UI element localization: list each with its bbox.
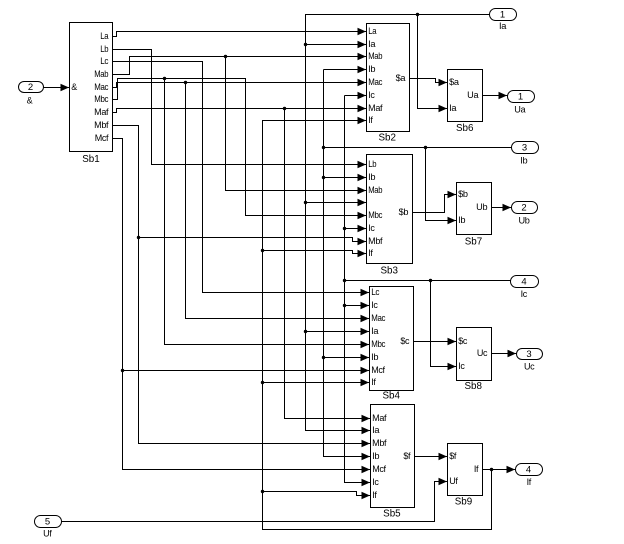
junction dot Ib Sb4 [322, 356, 325, 359]
outport 3 (Uc) [517, 349, 543, 372]
wire Ic to Sb4 [345, 305, 370, 307]
svg-text:Sb5: Sb5 [383, 508, 401, 519]
subsystem block Sb3 [367, 155, 413, 277]
arrowhead into Sb4.If [361, 379, 370, 387]
svg-text:Lc: Lc [371, 287, 380, 297]
arrowhead into Sb6.$a [439, 79, 448, 87]
svg-text:Uf: Uf [43, 529, 52, 539]
wire net Mcf : Sb1.Mcf to Sb4.Mcf and Sb5.Mcf [113, 139, 371, 474]
svg-text:Ua: Ua [467, 90, 478, 100]
svg-text:Sb2: Sb2 [378, 133, 396, 144]
wire net & : inport 2 to Sb1 [44, 84, 70, 92]
wire net $a : Sb2 output to Sb6 [410, 79, 448, 87]
arrowhead into outport 4 [507, 466, 516, 474]
svg-text:Ua: Ua [514, 104, 525, 114]
junction dot Mbc [163, 77, 166, 80]
wire Ia to Sb2 [306, 44, 367, 46]
wire Lb [113, 50, 367, 165]
inport 2 (&) [19, 82, 44, 106]
wire Uf run [62, 482, 448, 522]
svg-text:$f: $f [403, 451, 411, 461]
wire Mbc main [113, 79, 367, 216]
arrowhead into Sb9.Uf [439, 478, 448, 486]
wire Ia to Sb3 [306, 202, 367, 204]
wire net Mbc : Sb1.Mbc to Sb3.Mbc and Sb4.Mbc [113, 77, 370, 349]
arrowhead into Sb8.Ic [448, 363, 457, 371]
subsystem block Sb4 [370, 287, 414, 402]
junction dot Mbf [137, 236, 140, 239]
svg-text:Sb7: Sb7 [465, 237, 483, 248]
wire Mcf branch [123, 370, 370, 372]
svg-text:&: & [71, 82, 77, 92]
arrowhead into Sb2.Ic [358, 92, 367, 100]
wire Ia to Sb6 [418, 15, 448, 109]
junction dot If Sb4 [261, 381, 264, 384]
wire Mac branch [186, 83, 370, 319]
junction dot Ia Sb4 [304, 330, 307, 333]
svg-text:Maf: Maf [94, 107, 109, 117]
svg-text:Ub: Ub [519, 215, 530, 225]
svg-text:3: 3 [526, 349, 531, 360]
junction dot Ic Sb4 [343, 304, 346, 307]
wire net Ia : inport 1 to Sb2.Ia, Sb3, Sb4.Ia, Sb5.Ia, Sb6.Ia [304, 13, 490, 435]
svg-text:3: 3 [522, 142, 527, 153]
outport 4 (If) [516, 464, 543, 488]
arrowhead into outport 3 [508, 350, 517, 358]
wire Ia trunk [306, 15, 490, 431]
svg-text:4: 4 [521, 276, 526, 287]
svg-text:Mac: Mac [94, 82, 109, 92]
svg-text:Ic: Ic [458, 361, 465, 371]
arrowhead into Sb7.$b [448, 191, 457, 199]
svg-text:Sb9: Sb9 [455, 496, 473, 507]
arrowhead into Sb4.Ib [361, 354, 370, 362]
svg-text:Ia: Ia [368, 39, 375, 49]
junction dot Ic Sb3 [343, 227, 346, 230]
arrowhead into outport 1 [499, 92, 508, 100]
svg-text:5: 5 [45, 516, 50, 527]
svg-text:Mbf: Mbf [94, 120, 109, 130]
arrowhead into Sb5.Ib [362, 453, 371, 461]
wire net $c : Sb4 output to Sb8 [414, 338, 457, 346]
wire $c run [414, 341, 457, 343]
wire If to Sb5 [263, 492, 371, 496]
svg-text:Mac: Mac [368, 77, 383, 87]
junction dot Maf [283, 107, 286, 110]
junction dot Ib inport [322, 146, 325, 149]
arrowhead into Sb3.Ib [358, 174, 367, 182]
wire Ib to Sb3 [324, 177, 367, 179]
wire Ua run [483, 95, 508, 97]
arrowhead into Sb4.Mcf [361, 367, 370, 375]
svg-text:Mcf: Mcf [95, 133, 109, 143]
arrowhead into Sb2.Mac [358, 79, 367, 87]
arrowhead into Sb5.Ic [362, 479, 371, 487]
arrowhead into Sb8.$c [448, 338, 457, 346]
svg-text:$c: $c [400, 336, 410, 346]
svg-text:Uc: Uc [477, 348, 488, 358]
wire net Mbf : Sb1.Mbf to Sb3.Mbf and Sb5.Mbf [113, 126, 371, 448]
svg-text:Ia: Ia [449, 103, 456, 113]
wire Mbf branch [139, 238, 367, 242]
wire Ic inport run [345, 280, 511, 282]
wire Mcf main [113, 139, 371, 470]
svg-text:Ic: Ic [371, 300, 378, 310]
arrowhead into Sb5.If [362, 492, 371, 500]
arrowhead into Sb4.Mbc [361, 341, 370, 349]
svg-text:Sb8: Sb8 [464, 381, 482, 392]
arrowhead into Sb3.Mab [358, 187, 367, 195]
svg-text:Lb: Lb [368, 159, 376, 169]
svg-text:Mac: Mac [371, 313, 386, 323]
svg-text:Ic: Ic [521, 289, 528, 299]
svg-text:Ia: Ia [499, 21, 506, 31]
arrowhead into outport 2 [503, 204, 512, 212]
svg-text:Ia: Ia [372, 425, 379, 435]
svg-text:Mcf: Mcf [372, 464, 386, 474]
arrowhead into Sb3.Lb [358, 161, 367, 169]
svg-text:Ic: Ic [368, 90, 375, 100]
svg-text:4: 4 [526, 464, 531, 475]
wire If to Sb4 [263, 382, 370, 384]
wire net Mac : Sb1.Mac to Sb2.Mac and Sb4.Mac [113, 79, 370, 323]
svg-text:Mab: Mab [94, 69, 108, 79]
wire net Mab : Sb1.Mab to Sb2.Mab and Sb3.Mab [113, 53, 367, 195]
junction dot Mcf [121, 369, 124, 372]
svg-text:&: & [27, 95, 33, 105]
svg-text:$b: $b [399, 207, 409, 217]
wire net $b : Sb3 output to Sb7 [413, 191, 457, 213]
wire Ic to Sb3 [345, 228, 367, 230]
arrowhead into Sb1 [61, 84, 70, 92]
svg-text:$a: $a [449, 77, 459, 87]
svg-text:Ub: Ub [476, 202, 487, 212]
arrowhead into Sb2.Maf [358, 105, 367, 113]
wire Maf branch [285, 109, 371, 419]
wire $f run [415, 456, 448, 458]
svg-text:$c: $c [458, 336, 468, 346]
wire net Lc : Sb1.Lc to Sb4.Lc [113, 62, 370, 297]
wire Ib inport run [324, 147, 512, 149]
wire net Ub : Sb7 output to outport 2 [492, 204, 512, 212]
svg-text:Sb3: Sb3 [380, 266, 398, 277]
arrowhead into Sb3.If [358, 250, 367, 258]
wire If to Sb3 [263, 251, 367, 254]
wire If out run [483, 469, 516, 471]
wire Mbf main [113, 126, 371, 444]
svg-text:Ib: Ib [371, 352, 378, 362]
outport 1 (Ua) [508, 91, 535, 115]
svg-text:Maf: Maf [368, 103, 383, 113]
wire Ic trunk [345, 96, 371, 483]
junction dot If Sb5 [261, 490, 264, 493]
wire Lc [113, 62, 370, 293]
junction dot Mab [224, 55, 227, 58]
wire Ic to Sb8 [431, 281, 457, 367]
subsystem block Sb7 [457, 183, 492, 248]
wire net Lb : Sb1.Lb to Sb3.Lb [113, 50, 367, 169]
svg-text:Uc: Uc [524, 362, 535, 372]
junction dot Ic Sb8 [429, 279, 432, 282]
arrowhead into Sb3.Mbc [358, 212, 367, 220]
wire Maf main [113, 109, 367, 113]
svg-text:Ib: Ib [372, 451, 379, 461]
wire Ic to Sb2 [345, 95, 367, 97]
svg-text:Ic: Ic [368, 223, 375, 233]
svg-text:La: La [100, 31, 108, 41]
arrowhead into Sb5.Ia [362, 427, 371, 435]
wire Ia to Sb4 [306, 331, 370, 333]
svg-text:Mbc: Mbc [371, 339, 386, 349]
inport 1 (Ia) top right [490, 9, 517, 32]
svg-text:Mab: Mab [368, 185, 382, 195]
svg-text:Ib: Ib [520, 155, 527, 165]
svg-text:La: La [368, 26, 376, 36]
subsystem block Sb6 [448, 70, 483, 135]
wire Mab main [113, 57, 367, 75]
svg-text:Lc: Lc [100, 56, 109, 66]
wire &amp; run [44, 87, 70, 89]
wire Mbc branch [165, 79, 370, 345]
subsystem block Sb1 [70, 23, 113, 166]
svg-text:Lb: Lb [100, 44, 108, 54]
wire La [113, 32, 367, 37]
svg-text:Sb6: Sb6 [456, 123, 474, 134]
wire If feedback [263, 121, 492, 530]
arrowhead into Sb2.La [358, 28, 367, 36]
svg-text:If: If [527, 477, 532, 487]
arrowhead into Sb7.Ib [448, 217, 457, 225]
arrowhead into Sb3.Mbf [358, 238, 367, 246]
wire $a run [410, 79, 448, 83]
svg-text:2: 2 [521, 202, 526, 213]
arrowhead into Sb5.Mcf [362, 466, 371, 474]
wire Mac main [113, 83, 367, 88]
svg-text:Sb4: Sb4 [382, 390, 400, 401]
arrowhead into Sb2.Ib [358, 66, 367, 74]
svg-text:Ic: Ic [372, 477, 379, 487]
svg-text:Mbc: Mbc [94, 94, 109, 104]
wire net Ib : inport 3 to Sb2.Ib, Sb3.Ib, Sb4.Ib, Sb5.Ib, Sb7.Ib [322, 66, 512, 461]
svg-text:Ib: Ib [458, 215, 465, 225]
junction dot Ib Sb3 [322, 176, 325, 179]
svg-text:Mbf: Mbf [372, 438, 387, 448]
arrowhead into Sb5.Maf [362, 415, 371, 423]
arrowhead into Sb9.$f [439, 453, 448, 461]
wire net Ua : Sb6 output to outport 1 [483, 92, 508, 100]
wire Ub run [492, 207, 512, 209]
junction dot Ia Sb2 [304, 43, 307, 46]
wire Uc run [492, 353, 517, 355]
junction dot If feedback [490, 468, 493, 471]
wire net Maf : Sb1.Maf to Sb2.Maf and Sb5.Maf [113, 105, 371, 423]
svg-text:Maf: Maf [372, 413, 387, 423]
inport 4 (Ic) [511, 276, 539, 300]
svg-text:2: 2 [28, 82, 33, 93]
subsystem block Sb2 [367, 24, 410, 144]
wire Ib to Sb2 [324, 69, 367, 71]
arrowhead into Sb2.If [358, 117, 367, 125]
svg-text:Mbc: Mbc [368, 210, 383, 220]
svg-text:Sb1: Sb1 [82, 154, 100, 165]
arrowhead into Sb4.Ic [361, 302, 370, 310]
wire net If : Sb9 output to outport 4 and feedback to Sb2..Sb5 [261, 117, 516, 530]
outport 2 (Ub) [512, 202, 538, 226]
subsystem block Sb5 [371, 405, 415, 520]
inport 3 (Ib) [512, 142, 539, 166]
wire Ib to Sb4 [324, 357, 370, 359]
junction dot Ic inport [343, 279, 346, 282]
junction dot Ia Sb3 [304, 201, 307, 204]
subsystem block Sb8 [457, 328, 492, 392]
junction dot If Sb3 [261, 249, 264, 252]
arrowhead into Sb6.Ia [439, 105, 448, 113]
svg-text:1: 1 [500, 9, 505, 20]
svg-text:Ib: Ib [368, 64, 375, 74]
svg-text:Ib: Ib [368, 172, 375, 182]
arrowhead into Sb3.Ic [358, 225, 367, 233]
arrowhead into Sb5.Mbf [362, 440, 371, 448]
svg-text:Mcf: Mcf [371, 365, 385, 375]
wire net Uc : Sb8 output to outport 3 [492, 350, 517, 358]
svg-text:Ia: Ia [371, 326, 378, 336]
svg-text:1: 1 [518, 91, 523, 102]
svg-text:Mab: Mab [368, 51, 382, 61]
arrowhead into Sb2.Ia [358, 41, 367, 49]
wire net Ic : inport 4 to Sb2.Ic, Sb3.Ic, Sb4.Ic, Sb5.Ic, Sb8.Ic [343, 92, 511, 487]
arrowhead into Sb3 input 4 [358, 199, 367, 207]
junction dot Mac [184, 81, 187, 84]
wire Ib to Sb7 [426, 148, 457, 221]
arrowhead into Sb2.Mab [358, 53, 367, 61]
svg-text:Uf: Uf [449, 476, 458, 486]
arrowhead into Sb4.Lc [361, 289, 370, 297]
wire $b run [413, 195, 457, 213]
junction dot Ib Sb7 [424, 146, 427, 149]
junction dot Ia top [416, 13, 419, 16]
wire Ib trunk [324, 70, 371, 457]
wire net Uf : inport 5 to Sb9.Uf [62, 478, 448, 522]
svg-text:$a: $a [396, 73, 406, 83]
svg-text:$f: $f [449, 451, 457, 461]
inport 5 (Uf) bottom left [35, 516, 62, 539]
arrowhead into Sb4.Mac [361, 315, 370, 323]
wire net $f : Sb5 output to Sb9 [415, 453, 448, 461]
arrowhead into Sb4.Ia [361, 328, 370, 336]
svg-text:$b: $b [458, 189, 468, 199]
wire Mab branch [226, 57, 367, 191]
svg-text:Mbf: Mbf [368, 236, 383, 246]
wire net La : Sb1.La to Sb2.La [113, 28, 367, 37]
subsystem block Sb9 [448, 444, 483, 508]
